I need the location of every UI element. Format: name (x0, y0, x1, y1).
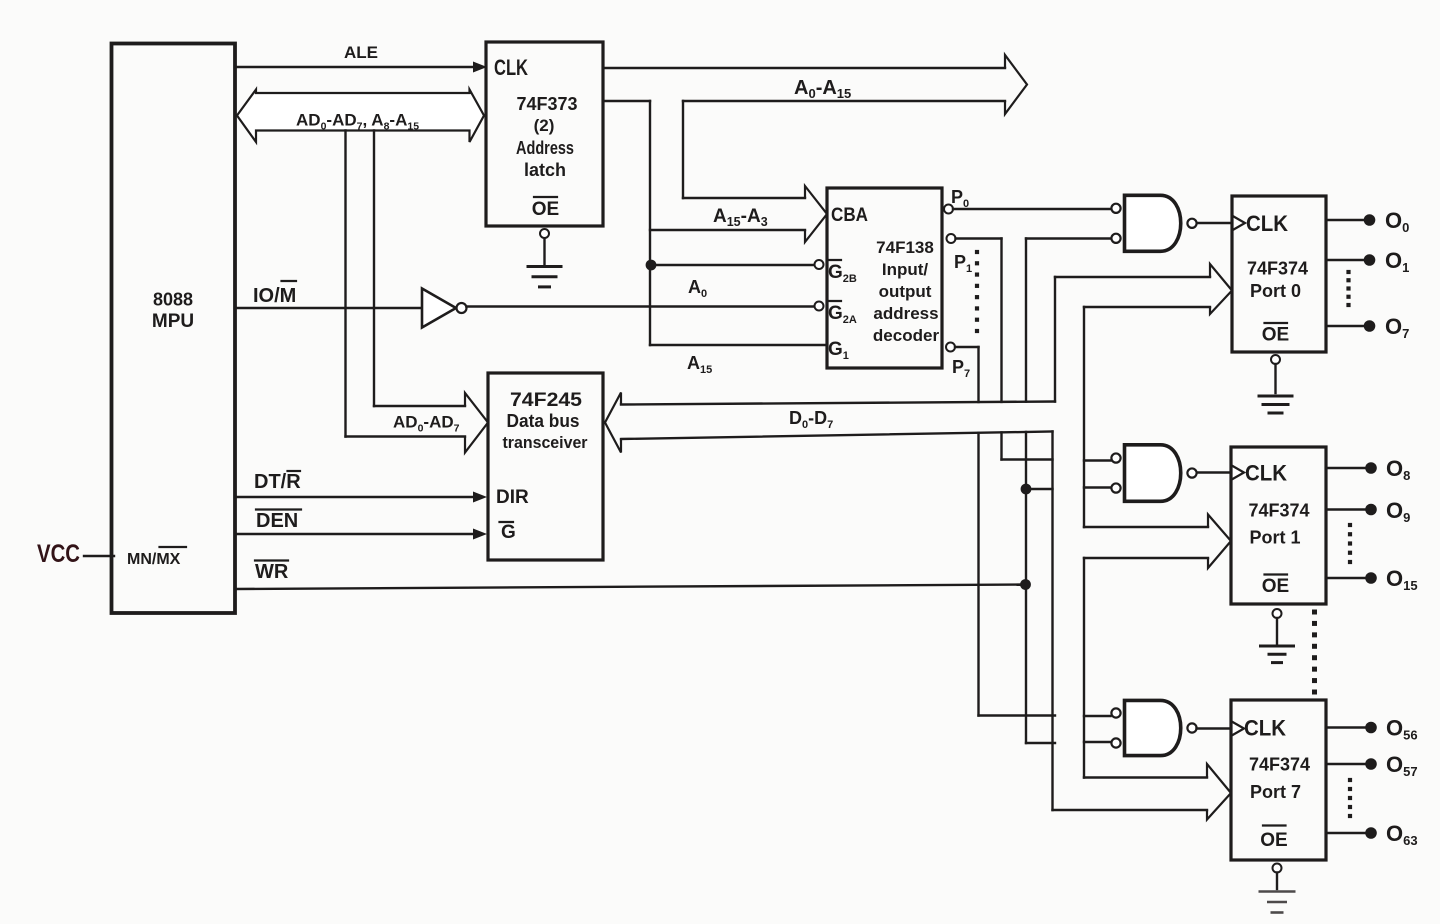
wire WR riser upper (1025, 239, 1027, 402)
svg-text:DT/R: DT/R (254, 471, 301, 493)
terminal dot O8 (1365, 462, 1377, 474)
svg-text:Address: Address (516, 138, 574, 158)
wire U7 OE to ground (1276, 618, 1278, 644)
wire D bus branch up to port 0 (1054, 277, 1056, 402)
port0 CLK edge triangle (1231, 215, 1245, 231)
svg-text:MN/MX: MN/MX (127, 551, 181, 568)
svg-text:ALE: ALE (344, 43, 378, 62)
bus A0-A15 arrow to the right (603, 67, 1005, 69)
wire P1 down below D bus (1000, 432, 1002, 459)
svg-text:OE: OE (1260, 830, 1287, 851)
svg-text:Port 1: Port 1 (1249, 528, 1300, 548)
svg-text:P1: P1 (954, 252, 972, 275)
svg-text:OE: OE (1262, 325, 1289, 346)
gate G3 body (1125, 700, 1181, 755)
gate G1 body (1125, 195, 1181, 251)
svg-text:Input/: Input/ (882, 260, 929, 279)
wire U6 OE to ground (1274, 364, 1276, 393)
svg-text:VCC: VCC (37, 540, 80, 568)
svg-text:(2): (2) (534, 116, 555, 135)
wire port7 output O57 (1326, 763, 1366, 765)
wire IO/M from U1 to inverter (235, 307, 422, 309)
svg-text:CLK: CLK (1246, 211, 1288, 236)
svg-text:O56: O56 (1386, 716, 1418, 743)
gate G3 input bubble A (1111, 708, 1120, 717)
IC U8 74F374 Port 7 box (1231, 700, 1326, 860)
gate G2 output bubble (1187, 468, 1196, 477)
U4 P7 output bubble (946, 343, 955, 352)
wire port1 output O9 (1326, 508, 1366, 510)
bus arrow into port 1 data inputs (1084, 526, 1208, 528)
junction dot WR riser at gate G2 level (1021, 484, 1032, 495)
svg-text:MPU: MPU (152, 311, 194, 332)
wire P7 down below D bus (977, 433, 979, 716)
junction dot on G2B tap (646, 260, 657, 271)
wire port7 output O56 (1326, 726, 1366, 728)
IC U3 74F245 data bus transceiver box (488, 373, 603, 560)
svg-text:O1: O1 (1385, 248, 1409, 275)
svg-text:G2B: G2B (828, 262, 857, 285)
wire gate G1 input B from WR riser (1026, 237, 1111, 239)
ground below U7 (1259, 645, 1295, 648)
svg-text:74F374: 74F374 (1249, 755, 1310, 775)
ground below U6 (1258, 395, 1294, 398)
wire U2 output to decoder G2B/G1 (603, 100, 650, 102)
terminal dot O56 (1365, 722, 1377, 734)
svg-text:CLK: CLK (1245, 461, 1287, 486)
ground below U8 (1259, 890, 1296, 893)
svg-text:G: G (501, 522, 516, 543)
wire WR tap to branch at G3 level (1026, 742, 1055, 744)
gate G2 input bubble B (1111, 483, 1120, 492)
wire port1 output O15 (1326, 577, 1366, 579)
bus A15-A3 arrow into decoder CBA (683, 197, 805, 199)
wire to G1 input (650, 344, 827, 346)
wire port0 output O1 (1326, 259, 1364, 261)
wire P7 down (977, 347, 979, 402)
wire WR from U1 to ports (235, 585, 1026, 590)
dotted line between port1 and port7 (1312, 610, 1317, 615)
svg-text:A0-A15: A0-A15 (794, 77, 851, 101)
wire D bus branch right lower (1083, 558, 1085, 778)
junction dot WR riser at WR line (1020, 579, 1031, 590)
wire P7 across to branch (979, 714, 1056, 716)
svg-text:74F374: 74F374 (1247, 259, 1308, 279)
dotted line port7 outputs (1348, 778, 1352, 782)
wire AD bus tail left (344, 131, 346, 437)
svg-text:DIR: DIR (496, 487, 529, 508)
port7 CLK edge triangle (1230, 721, 1244, 737)
wire port0 output O7 (1326, 325, 1364, 327)
gate G1 input bubble A (1111, 204, 1120, 213)
bus AD0-AD7 arrow into U3 (374, 405, 465, 407)
IC U4 74F138 address decoder box (827, 188, 942, 368)
wire P0 to gate G1 input A (953, 208, 1111, 210)
svg-text:OE: OE (532, 199, 559, 220)
dotted line port1 outputs (1348, 523, 1352, 527)
wire gate G3 input B tap (1084, 741, 1111, 743)
ground below U2 (527, 265, 563, 268)
wire WR riser lower (1025, 432, 1027, 743)
IC U6 74F374 Port 0 box (1232, 196, 1326, 352)
svg-text:OE: OE (1262, 576, 1289, 597)
wire gate G1 output to port0 CLK (1197, 222, 1231, 224)
svg-text:AD0-AD7: AD0-AD7 (393, 413, 460, 435)
svg-text:Port 7: Port 7 (1250, 782, 1301, 802)
svg-text:A15: A15 (687, 353, 712, 376)
svg-text:D0-D7: D0-D7 (789, 408, 833, 431)
wire VCC to MN/MX pin (84, 555, 114, 557)
IC U2 74F373 address latch box (486, 42, 603, 226)
decoder G2A bubble (815, 302, 824, 311)
wire ALE from U1 to U2 CLK (235, 66, 474, 68)
terminal dot O7 (1364, 320, 1376, 332)
terminal dot O63 (1365, 827, 1377, 839)
svg-text:decoder: decoder (873, 326, 940, 345)
wire gate G2 output to port1 CLK (1197, 471, 1230, 473)
svg-text:A15-A3: A15-A3 (713, 206, 768, 229)
svg-text:CBA: CBA (831, 205, 868, 226)
wire U8 OE to ground (1276, 873, 1278, 890)
svg-text:WR: WR (255, 561, 289, 583)
bus arrow into port 0 data inputs (1055, 276, 1210, 278)
U4 P0 output bubble (944, 205, 953, 214)
wire gate G2 input A tap (1084, 459, 1111, 461)
svg-text:O7: O7 (1385, 314, 1409, 341)
wire P1 across to branch (1002, 458, 1053, 460)
wire to G2B input (650, 264, 814, 266)
wire DT/R from U1 to U3 DIR (235, 496, 473, 498)
bus arrow into port 7 data inputs (1084, 776, 1207, 778)
svg-text:CLK: CLK (1244, 716, 1286, 741)
wire P7 right (955, 346, 979, 348)
svg-text:IO/M: IO/M (253, 285, 296, 307)
svg-text:latch: latch (524, 160, 566, 180)
gate G1 input bubble B (1111, 234, 1120, 243)
decoder G2B bubble (815, 260, 824, 269)
svg-text:74F374: 74F374 (1248, 501, 1309, 521)
svg-text:output: output (879, 282, 932, 301)
svg-text:P7: P7 (952, 357, 970, 380)
svg-text:74F373: 74F373 (516, 94, 577, 114)
dotted line P1 to P7 (975, 250, 979, 254)
terminal dot O57 (1365, 758, 1377, 770)
wire P1 down (956, 237, 1002, 239)
wire U2 OE to ground (543, 239, 545, 266)
U8 OE bubble (1273, 864, 1282, 873)
gate G3 input bubble B (1111, 738, 1120, 747)
wire port0 output O0 (1326, 219, 1364, 221)
U7 OE bubble (1273, 609, 1282, 618)
svg-text:O0: O0 (1385, 208, 1409, 235)
wire D bus branch right to ports 1-7 (1083, 307, 1085, 527)
wire gate G3 input A tap (1084, 715, 1111, 717)
U4 P1 output bubble (947, 234, 956, 243)
wire port7 output O63 (1326, 832, 1366, 834)
svg-text:O63: O63 (1386, 821, 1418, 848)
svg-text:G1: G1 (828, 339, 849, 362)
gate G1 output bubble (1187, 219, 1196, 228)
svg-text:address: address (873, 304, 938, 323)
svg-text:Data bus: Data bus (507, 411, 580, 431)
bus AD0-AD7 A8-A15 double arrow between U1 and U2 (237, 90, 484, 143)
U2 OE bubble (540, 229, 549, 238)
inverter U5 (422, 289, 456, 328)
svg-text:Port 0: Port 0 (1250, 281, 1301, 301)
wire DEN from U1 to U3 G (235, 533, 473, 535)
bus D0-D7 arrow into U3 from system (621, 402, 1055, 405)
terminal dot O9 (1365, 504, 1377, 516)
terminal dot O0 (1364, 214, 1376, 226)
svg-text:P0: P0 (951, 187, 969, 210)
svg-text:O9: O9 (1386, 498, 1410, 525)
U6 OE bubble (1271, 355, 1280, 364)
wire D bus branch down trunk (1051, 432, 1053, 811)
wire gate G3 output to port7 CLK (1197, 727, 1231, 729)
IC U1 8088 MPU box (112, 44, 236, 614)
wire gate G2 input B tap (1084, 486, 1111, 488)
svg-text:DEN: DEN (256, 510, 298, 532)
dotted line port0 outputs (1346, 270, 1350, 274)
terminal dot O15 (1365, 572, 1377, 584)
wire AD bus tail right (373, 131, 375, 407)
svg-text:O57: O57 (1386, 752, 1418, 779)
svg-text:8088: 8088 (153, 290, 193, 310)
terminal dot O1 (1364, 254, 1376, 266)
inverter output bubble (457, 303, 467, 313)
wire WR tap to branch at G2 level (1026, 488, 1053, 490)
svg-text:CLK: CLK (494, 55, 528, 80)
wire A bus branch down to CBA bus (682, 101, 684, 198)
svg-text:A0: A0 (688, 277, 707, 300)
gate G2 body (1125, 445, 1181, 502)
gate G3 output bubble (1187, 723, 1196, 732)
svg-text:O8: O8 (1386, 456, 1410, 483)
wire inverter output to decoder G2A (467, 305, 814, 307)
port1 CLK edge triangle (1230, 465, 1244, 481)
wire port1 output O8 (1326, 467, 1366, 469)
svg-text:74F245: 74F245 (510, 390, 582, 411)
IC U7 74F374 Port 1 box (1231, 447, 1326, 604)
svg-text:74F138: 74F138 (876, 238, 934, 257)
svg-text:transceiver: transceiver (503, 433, 588, 452)
svg-text:G2A: G2A (828, 303, 857, 326)
gate G2 input bubble A (1111, 453, 1120, 462)
svg-text:O15: O15 (1386, 566, 1418, 593)
